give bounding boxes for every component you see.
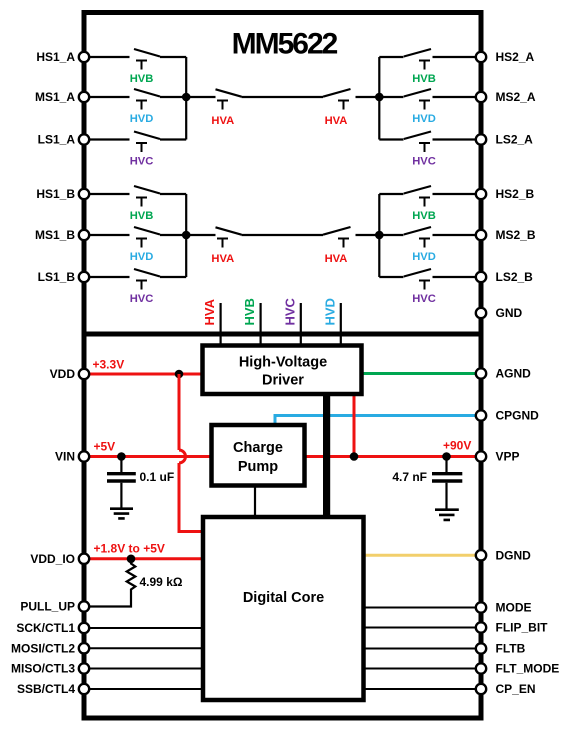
svg-text:GND: GND — [496, 306, 523, 320]
svg-text:HVD: HVD — [130, 113, 154, 125]
switch HVA left (B) — [211, 227, 241, 265]
label pin FLTB — [496, 642, 526, 656]
divider line between switch matrix and lower section — [82, 332, 484, 337]
wire: phase-B mid rail — [186, 234, 379, 236]
wire: charge pump to digital core — [254, 485, 256, 518]
block: High-Voltage Driver U1 — [203, 346, 362, 395]
node: right junction B — [375, 231, 384, 240]
label pin DGND — [496, 549, 532, 563]
node: VIN / 0.1uF junction — [117, 452, 126, 461]
pin FLT_MODE — [476, 663, 486, 673]
svg-text:VDD: VDD — [50, 367, 76, 381]
svg-text:HS2_B: HS2_B — [496, 187, 535, 201]
label pin VDD_IO — [30, 552, 75, 566]
node: left junction A — [182, 93, 191, 102]
svg-text:MS1_A: MS1_A — [35, 90, 75, 104]
svg-text:+1.8V to +5V: +1.8V to +5V — [94, 542, 165, 556]
svg-text:HVC: HVC — [130, 293, 154, 305]
label pin MOSI/CTL2 — [11, 642, 75, 656]
wire AGND (green) from HV driver to AGND pin — [360, 372, 479, 375]
svg-text:HVD: HVD — [322, 298, 337, 325]
wire: control net HVA into HV driver — [202, 298, 221, 347]
svg-text:VPP: VPP — [496, 450, 520, 464]
wire: SPI pin to digital core — [86, 627, 204, 629]
pin FLIP_BIT — [476, 622, 486, 632]
label pin MS1_A — [35, 90, 75, 104]
bus: thick control bus HV driver to digital core — [323, 393, 330, 518]
pin CP_EN — [476, 684, 486, 694]
pin MOSI/CTL2 — [79, 643, 89, 653]
pin MS2_A — [476, 92, 486, 102]
label pin LS1_B — [38, 270, 76, 284]
label pin VIN — [55, 450, 75, 464]
wire: control net HVB into HV driver — [242, 298, 261, 347]
svg-text:FLTB: FLTB — [496, 642, 526, 656]
svg-text:+5V: +5V — [94, 440, 116, 454]
pin VDD_IO — [79, 554, 89, 564]
pin VDD — [79, 369, 89, 379]
label pin GND — [496, 306, 523, 320]
svg-text:CP_EN: CP_EN — [496, 682, 536, 696]
switch HVC (LS1_B), blade + control T + label — [86, 269, 186, 305]
svg-text:LS2_A: LS2_A — [496, 133, 534, 147]
wire: digital core to status pin — [362, 607, 479, 609]
svg-text:DGND: DGND — [496, 549, 532, 563]
svg-text:+90V: +90V — [443, 439, 471, 453]
node: left junction B — [182, 231, 191, 240]
label pin VPP — [496, 450, 520, 464]
pin LS2_B — [476, 272, 486, 282]
wire: phase-A mid rail — [186, 96, 379, 98]
pin SSB/CTL4 — [79, 684, 89, 694]
label pin PULL_UP — [20, 600, 75, 614]
svg-text:4.7 nF: 4.7 nF — [392, 470, 427, 484]
pin MISO/CTL3 — [79, 663, 89, 673]
pin FLTB — [476, 643, 486, 653]
label pin SSB/CTL4 — [17, 682, 75, 696]
node: right junction A — [375, 93, 384, 102]
switch HVC (LS2_B), blade + control T + label — [379, 269, 479, 305]
pin MS1_A — [79, 92, 89, 102]
svg-text:FLT_MODE: FLT_MODE — [496, 662, 560, 676]
svg-text:Driver: Driver — [262, 373, 304, 389]
svg-text:HVB: HVB — [130, 73, 154, 85]
switch HVB (HS2_A), blade + control T + label — [379, 49, 479, 85]
svg-text:HVD: HVD — [130, 251, 154, 263]
label +3.3V — [93, 358, 125, 372]
svg-text:+3.3V: +3.3V — [93, 358, 125, 372]
switch HVD (MS2_B), blade + control T + label — [379, 227, 479, 263]
pin MS2_B — [476, 230, 486, 240]
label pin AGND — [496, 367, 532, 381]
pin LS1_A — [79, 134, 89, 144]
capacitor C1 0.1 uF — [107, 457, 174, 509]
pin HS2_A — [476, 52, 486, 62]
node: VPP rail / driver branch junction — [350, 452, 359, 461]
label pin HS2_B — [496, 187, 535, 201]
svg-text:CPGND: CPGND — [496, 409, 540, 423]
switch HVD (MS1_A), blade + control T + label — [86, 89, 186, 125]
wire: right bus group A — [378, 57, 380, 140]
wire CPGND (cyan) from charge pump to CPGND pin — [275, 416, 479, 427]
label +90V — [443, 439, 471, 453]
svg-text:HVA: HVA — [202, 298, 217, 325]
label pin CP_EN — [496, 682, 536, 696]
chip outline MM5622 — [84, 13, 481, 719]
wire: VDD branch down to digital core with hop over VIN — [179, 374, 204, 532]
svg-text:MOSI/CTL2: MOSI/CTL2 — [11, 642, 75, 656]
wire VDD +3.3V (red) — [86, 373, 204, 376]
switch HVA left (A) — [211, 89, 241, 127]
svg-text:HVA: HVA — [211, 253, 234, 265]
svg-text:HVD: HVD — [412, 251, 436, 263]
svg-text:LS1_A: LS1_A — [38, 133, 76, 147]
pin HS1_A — [79, 52, 89, 62]
svg-text:HS2_A: HS2_A — [496, 50, 535, 64]
pin MS1_B — [79, 230, 89, 240]
pin GND — [476, 308, 486, 318]
svg-text:HS1_B: HS1_B — [36, 187, 75, 201]
block: Charge Pump — [212, 425, 305, 486]
svg-text:LS1_B: LS1_B — [38, 270, 76, 284]
wire: control net HVD into HV driver — [322, 298, 341, 347]
svg-text:HVD: HVD — [412, 113, 436, 125]
switch HVB (HS2_B), blade + control T + label — [379, 186, 479, 222]
svg-text:HVB: HVB — [130, 210, 154, 222]
pin LS1_B — [79, 272, 89, 282]
svg-text:Pump: Pump — [238, 459, 278, 475]
wire: control net HVC into HV driver — [282, 297, 301, 347]
svg-text:HVC: HVC — [412, 156, 436, 168]
pin VPP — [476, 451, 486, 461]
wire: right bus group B — [378, 194, 380, 277]
wire: digital core to status pin — [362, 627, 479, 629]
wire VIN +5V (red) — [86, 455, 212, 458]
label pin LS2_B — [496, 270, 534, 284]
label pin FLT_MODE — [496, 662, 560, 676]
svg-text:HVC: HVC — [282, 297, 297, 325]
svg-text:MM5622: MM5622 — [232, 28, 338, 61]
label pin FLIP_BIT — [496, 621, 549, 635]
wire: SPI pin to digital core — [86, 688, 204, 690]
title MM5622 — [232, 28, 338, 61]
pin LS2_A — [476, 134, 486, 144]
wire VPP +90V (red) from charge pump — [304, 455, 479, 458]
ground (4.7nF) — [435, 510, 459, 520]
label pin LS2_A — [496, 133, 534, 147]
label pin HS2_A — [496, 50, 535, 64]
label pin MODE — [496, 601, 532, 615]
label pin LS1_A — [38, 133, 76, 147]
svg-text:MS2_B: MS2_B — [496, 228, 536, 242]
pin HS2_B — [476, 189, 486, 199]
resistor R1 4.99 kOhm pull-up — [86, 559, 183, 607]
svg-text:VIN: VIN — [55, 450, 75, 464]
pin VIN — [79, 451, 89, 461]
label pin MS2_B — [496, 228, 536, 242]
label pin HS1_A — [36, 50, 75, 64]
pin SCK/CTL1 — [79, 623, 89, 633]
switch HVB (HS1_A), blade + control T + label — [86, 49, 186, 85]
switch HVC (LS2_A), blade + control T + label — [379, 132, 479, 168]
svg-text:FLIP_BIT: FLIP_BIT — [496, 621, 549, 635]
svg-text:MS1_B: MS1_B — [35, 228, 75, 242]
pin MODE — [476, 602, 486, 612]
label pin VDD — [50, 367, 76, 381]
pin PULL_UP — [79, 601, 89, 611]
node: VDD junction — [175, 370, 184, 379]
svg-text:SSB/CTL4: SSB/CTL4 — [17, 682, 75, 696]
label pin CPGND — [496, 409, 540, 423]
switch HVD (MS1_B), blade + control T + label — [86, 227, 186, 263]
wire VDD_IO +1.8V to +5V (red) — [86, 557, 204, 560]
svg-text:PULL_UP: PULL_UP — [20, 600, 75, 614]
wire: left bus group A — [185, 57, 187, 140]
wire: digital core to status pin — [362, 648, 479, 650]
label pin MS1_B — [35, 228, 75, 242]
switch HVB (HS1_B), blade + control T + label — [86, 186, 186, 222]
svg-text:HVC: HVC — [412, 293, 436, 305]
wire: digital core to status pin — [362, 668, 479, 670]
wire: SPI pin to digital core — [86, 668, 204, 670]
wire DGND (gold) from digital core to DGND pin — [363, 554, 479, 557]
svg-text:AGND: AGND — [496, 367, 532, 381]
svg-text:SCK/CTL1: SCK/CTL1 — [16, 621, 75, 635]
svg-text:MISO/CTL3: MISO/CTL3 — [11, 662, 75, 676]
svg-text:HVB: HVB — [242, 298, 257, 325]
switch HVA right (B) — [323, 227, 351, 265]
svg-text:VDD_IO: VDD_IO — [30, 552, 75, 566]
capacitor C2 4.7 nF — [392, 457, 462, 510]
label pin MISO/CTL3 — [11, 662, 75, 676]
wire: digital core to status pin — [362, 688, 479, 690]
svg-text:4.99 kΩ: 4.99 kΩ — [140, 575, 183, 589]
block: Digital Core — [203, 517, 364, 700]
svg-text:HVA: HVA — [325, 253, 348, 265]
pin AGND — [476, 368, 486, 378]
svg-text:MS2_A: MS2_A — [496, 90, 536, 104]
svg-text:HVC: HVC — [130, 156, 154, 168]
label +5V — [94, 440, 116, 454]
ground (0.1uF) — [110, 509, 133, 519]
svg-text:MODE: MODE — [496, 601, 532, 615]
label +1.8V to +5V — [94, 542, 165, 556]
svg-text:0.1 uF: 0.1 uF — [140, 470, 175, 484]
svg-text:HVA: HVA — [211, 115, 234, 127]
switch HVA right (A) — [323, 89, 351, 127]
svg-text:HVA: HVA — [325, 115, 348, 127]
svg-text:Digital Core: Digital Core — [243, 590, 324, 606]
label pin HS1_B — [36, 187, 75, 201]
svg-text:HVB: HVB — [412, 73, 436, 85]
label pin MS2_A — [496, 90, 536, 104]
svg-text:Charge: Charge — [233, 440, 283, 456]
node: VDD_IO / pull-up junction — [127, 555, 136, 564]
wire: SPI pin to digital core — [86, 647, 204, 649]
node: VPP rail / 4.7nF junction — [442, 452, 451, 461]
switch HVC (LS1_A), blade + control T + label — [86, 132, 186, 168]
svg-text:High-Voltage: High-Voltage — [239, 355, 327, 371]
wire: red branch HV driver to VPP rail — [353, 393, 356, 457]
svg-text:HS1_A: HS1_A — [36, 50, 75, 64]
svg-text:HVB: HVB — [412, 210, 436, 222]
svg-text:LS2_B: LS2_B — [496, 270, 534, 284]
wire: left bus group B — [185, 194, 187, 277]
pin HS1_B — [79, 189, 89, 199]
label pin SCK/CTL1 — [16, 621, 75, 635]
switch HVD (MS2_A), blade + control T + label — [379, 89, 479, 125]
pin DGND — [476, 550, 486, 560]
pin CPGND — [476, 410, 486, 420]
